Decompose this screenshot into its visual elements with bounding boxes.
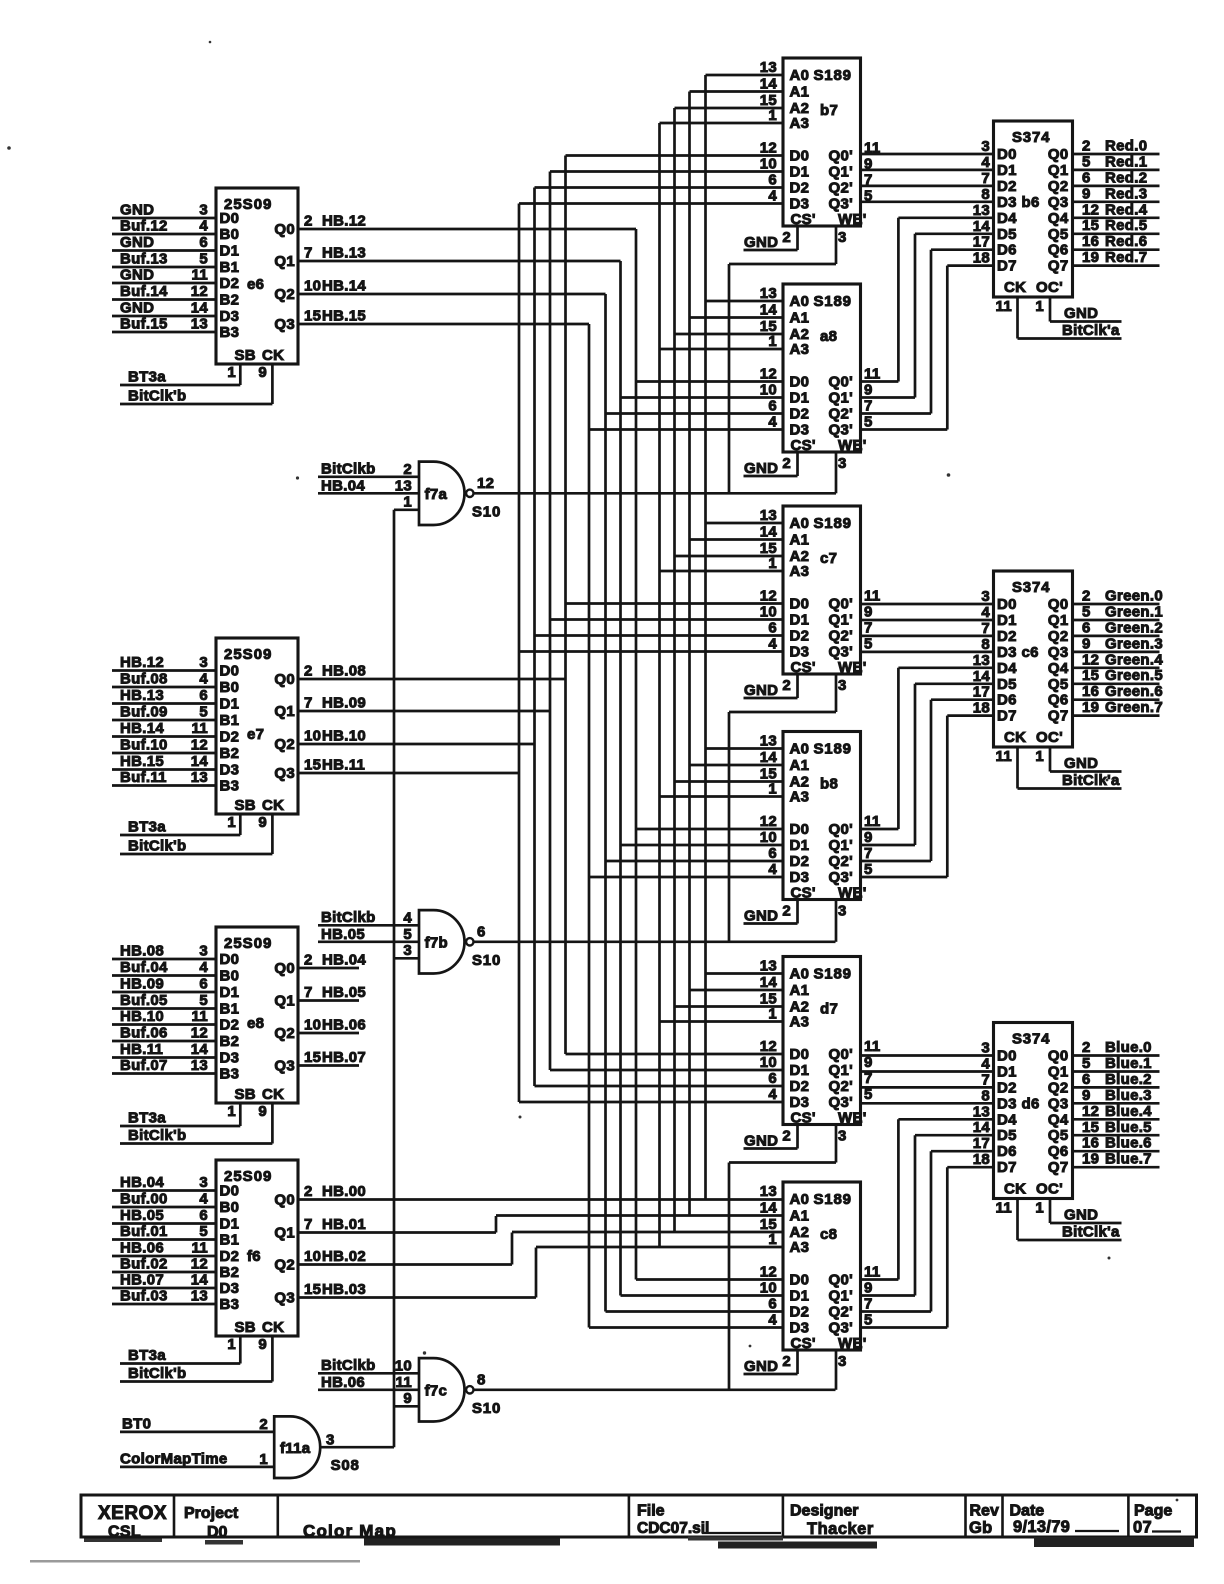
svg-text:2: 2: [1082, 588, 1091, 605]
svg-text:BitClk'b: BitClk'b: [128, 388, 186, 405]
svg-text:S08: S08: [331, 1457, 360, 1474]
svg-text:D3: D3: [790, 1320, 810, 1337]
svg-text:Q3: Q3: [274, 1058, 295, 1075]
svg-text:Q2': Q2': [829, 853, 853, 870]
svg-text:D3: D3: [220, 308, 240, 325]
svg-text:11: 11: [192, 720, 208, 737]
svg-text:A3: A3: [790, 115, 810, 132]
svg-text:9: 9: [258, 1103, 267, 1120]
svg-text:b8: b8: [820, 776, 838, 793]
svg-text:11: 11: [864, 588, 880, 605]
svg-text:3: 3: [838, 1128, 847, 1145]
svg-text:6: 6: [768, 1070, 777, 1087]
svg-text:D0: D0: [790, 821, 810, 838]
svg-text:Q2: Q2: [274, 736, 295, 753]
svg-text:14: 14: [973, 668, 991, 685]
svg-text:4: 4: [768, 1086, 777, 1103]
svg-text:HB.02: HB.02: [322, 1248, 366, 1265]
svg-text:f7a: f7a: [425, 486, 448, 503]
svg-text:2: 2: [782, 903, 791, 920]
svg-text:3: 3: [981, 138, 990, 155]
svg-text:14: 14: [760, 302, 778, 319]
svg-text:HB.15: HB.15: [120, 753, 164, 770]
svg-text:B2: B2: [220, 292, 240, 309]
svg-text:D6: D6: [997, 692, 1017, 709]
svg-text:2: 2: [782, 229, 791, 246]
svg-text:BitClk'b: BitClk'b: [128, 1127, 186, 1144]
svg-text:CK: CK: [262, 1319, 284, 1336]
svg-text:HB.04: HB.04: [321, 477, 365, 494]
svg-text:Q3: Q3: [1048, 1095, 1069, 1112]
svg-text:D1: D1: [790, 612, 810, 629]
svg-text:A1: A1: [790, 84, 810, 101]
svg-text:12: 12: [760, 1264, 777, 1281]
svg-text:1: 1: [1035, 748, 1044, 765]
svg-text:D0: D0: [997, 596, 1017, 613]
svg-text:10: 10: [760, 156, 777, 173]
svg-text:14: 14: [760, 749, 778, 766]
svg-text:CK: CK: [262, 1086, 284, 1103]
svg-text:14: 14: [760, 524, 778, 541]
svg-text:11: 11: [996, 298, 1012, 315]
svg-text:3: 3: [199, 202, 208, 219]
svg-text:Q7: Q7: [1048, 1159, 1069, 1176]
svg-text:Q7: Q7: [1048, 258, 1069, 275]
svg-text:9: 9: [864, 829, 873, 846]
svg-text:12: 12: [191, 1256, 208, 1273]
svg-text:1: 1: [768, 1006, 777, 1023]
svg-text:D2: D2: [220, 1017, 240, 1034]
svg-text:12: 12: [760, 813, 777, 830]
svg-text:12: 12: [191, 737, 208, 754]
svg-text:15: 15: [1082, 1119, 1099, 1136]
svg-text:11: 11: [864, 1038, 880, 1055]
svg-text:D3: D3: [997, 644, 1017, 661]
svg-text:Q5: Q5: [1048, 1127, 1069, 1144]
svg-text:18: 18: [973, 250, 990, 267]
svg-text:Red.6: Red.6: [1105, 233, 1147, 250]
svg-text:S189: S189: [814, 67, 852, 84]
svg-text:Q0: Q0: [274, 671, 295, 688]
svg-text:S189: S189: [814, 741, 852, 758]
svg-text:11: 11: [864, 366, 880, 383]
svg-text:GND: GND: [1064, 755, 1098, 772]
svg-text:Q2: Q2: [274, 1257, 295, 1274]
svg-text:14: 14: [973, 218, 991, 235]
svg-text:2: 2: [782, 1128, 791, 1145]
svg-text:Green.5: Green.5: [1105, 667, 1163, 684]
svg-text:9: 9: [258, 814, 267, 831]
svg-text:CK: CK: [1004, 1181, 1026, 1198]
svg-text:A0: A0: [790, 515, 810, 532]
svg-text:D0: D0: [997, 1048, 1017, 1065]
svg-text:Q1': Q1': [829, 390, 853, 407]
svg-text:Q2: Q2: [1048, 1079, 1069, 1096]
svg-text:D3: D3: [997, 1095, 1017, 1112]
svg-text:3: 3: [403, 942, 412, 959]
svg-text:4: 4: [199, 671, 208, 688]
svg-text:S189: S189: [814, 966, 852, 983]
svg-text:HB.04: HB.04: [322, 952, 366, 969]
svg-text:HB.10: HB.10: [322, 728, 366, 745]
svg-text:Blue.0: Blue.0: [1105, 1039, 1152, 1056]
svg-text:Q3: Q3: [274, 316, 295, 333]
svg-text:12: 12: [191, 283, 208, 300]
svg-text:Blue.5: Blue.5: [1105, 1119, 1152, 1136]
svg-text:4: 4: [403, 909, 412, 926]
svg-text:e7: e7: [247, 726, 264, 743]
svg-text:5: 5: [199, 1223, 208, 1240]
svg-text:Green.3: Green.3: [1105, 635, 1163, 652]
svg-text:Q2': Q2': [829, 406, 853, 423]
svg-text:Q2: Q2: [274, 286, 295, 303]
svg-text:HB.05: HB.05: [321, 926, 365, 943]
svg-text:D4: D4: [997, 210, 1017, 227]
svg-text:D3: D3: [790, 644, 810, 661]
svg-text:10: 10: [760, 382, 777, 399]
svg-text:WE': WE': [838, 1335, 867, 1352]
svg-text:Q1: Q1: [274, 253, 295, 270]
svg-text:6: 6: [199, 976, 208, 993]
svg-text:HB.10: HB.10: [120, 1008, 164, 1025]
svg-text:WE': WE': [838, 211, 867, 228]
svg-text:7: 7: [304, 984, 313, 1001]
svg-text:D0: D0: [790, 1046, 810, 1063]
svg-text:HB.05: HB.05: [322, 984, 366, 1001]
svg-text:A0: A0: [790, 1191, 810, 1208]
svg-text:3: 3: [199, 943, 208, 960]
svg-text:f6: f6: [247, 1248, 261, 1265]
svg-text:13: 13: [973, 1103, 990, 1120]
svg-text:SB: SB: [235, 797, 256, 814]
svg-text:B0: B0: [220, 679, 240, 696]
svg-text:Buf.12: Buf.12: [120, 218, 168, 235]
svg-text:d7: d7: [820, 1001, 838, 1018]
svg-text:Q2: Q2: [274, 1025, 295, 1042]
svg-text:9: 9: [1082, 1087, 1091, 1104]
svg-text:13: 13: [973, 202, 990, 219]
svg-text:Q0: Q0: [1048, 596, 1069, 613]
svg-text:BT3a: BT3a: [128, 1347, 166, 1364]
svg-text:13: 13: [191, 1288, 208, 1305]
svg-text:1: 1: [768, 555, 777, 572]
svg-text:S189: S189: [814, 1191, 852, 1208]
svg-text:10: 10: [304, 1017, 321, 1034]
svg-text:18: 18: [973, 1151, 990, 1168]
svg-text:CK: CK: [1004, 729, 1026, 746]
svg-text:Red.5: Red.5: [1105, 217, 1147, 234]
svg-text:1: 1: [768, 107, 777, 124]
svg-text:c7: c7: [820, 550, 837, 567]
svg-text:f7b: f7b: [425, 934, 448, 951]
svg-text:1: 1: [227, 364, 236, 381]
svg-text:14: 14: [191, 753, 209, 770]
svg-text:Green.4: Green.4: [1105, 651, 1163, 668]
svg-text:13: 13: [760, 958, 777, 975]
svg-text:7: 7: [981, 620, 990, 637]
svg-text:14: 14: [760, 974, 778, 991]
svg-text:12: 12: [477, 475, 494, 492]
svg-text:A3: A3: [790, 1014, 810, 1031]
svg-text:BitClk'a: BitClk'a: [1062, 322, 1120, 339]
svg-text:3: 3: [838, 455, 847, 472]
svg-text:11: 11: [864, 813, 880, 830]
svg-text:1: 1: [259, 1451, 268, 1468]
svg-text:D1: D1: [997, 612, 1017, 629]
svg-text:BT3a: BT3a: [128, 819, 166, 836]
svg-text:5: 5: [864, 414, 873, 431]
svg-text:1: 1: [768, 1231, 777, 1248]
svg-text:3: 3: [838, 1353, 847, 1370]
svg-text:5: 5: [1082, 604, 1091, 621]
svg-text:Blue.3: Blue.3: [1105, 1087, 1152, 1104]
svg-text:14: 14: [191, 1041, 209, 1058]
svg-text:Buf.01: Buf.01: [120, 1223, 168, 1240]
svg-text:Rev: Rev: [970, 1503, 999, 1520]
svg-text:D2: D2: [790, 628, 810, 645]
svg-text:WE': WE': [838, 659, 867, 676]
svg-text:Q0': Q0': [829, 596, 853, 613]
svg-text:D4: D4: [997, 660, 1017, 677]
svg-text:S374: S374: [1012, 129, 1050, 146]
svg-text:GND: GND: [744, 460, 778, 477]
svg-text:5: 5: [864, 1312, 873, 1329]
svg-text:CS': CS': [791, 1335, 816, 1352]
svg-text:Buf.03: Buf.03: [120, 1288, 168, 1305]
svg-text:4: 4: [981, 1056, 990, 1073]
svg-text:6: 6: [768, 398, 777, 415]
svg-text:4: 4: [768, 636, 777, 653]
svg-text:CK: CK: [1004, 279, 1026, 296]
svg-text:4: 4: [768, 188, 777, 205]
svg-text:Q2: Q2: [1048, 628, 1069, 645]
svg-text:CS': CS': [791, 885, 816, 902]
svg-text:6: 6: [1082, 1071, 1091, 1088]
svg-text:d6: d6: [1022, 1095, 1040, 1112]
svg-text:25S09: 25S09: [224, 935, 272, 952]
svg-text:GND: GND: [1064, 305, 1098, 322]
svg-text:10: 10: [760, 1054, 777, 1071]
svg-text:GND: GND: [744, 1358, 778, 1375]
svg-text:BitClk'b: BitClk'b: [128, 1365, 186, 1382]
svg-text:2: 2: [782, 677, 791, 694]
svg-text:XEROX: XEROX: [98, 1503, 167, 1524]
svg-text:D6: D6: [997, 1143, 1017, 1160]
svg-text:Red.0: Red.0: [1105, 138, 1147, 155]
svg-text:D2: D2: [790, 853, 810, 870]
svg-text:Q0: Q0: [1048, 1048, 1069, 1065]
svg-text:Q0': Q0': [829, 1046, 853, 1063]
svg-text:D7: D7: [997, 258, 1017, 275]
svg-text:1: 1: [403, 493, 412, 510]
svg-text:5: 5: [1082, 153, 1091, 170]
svg-text:D2: D2: [997, 1079, 1017, 1096]
svg-text:CK: CK: [262, 797, 284, 814]
svg-text:Q1': Q1': [829, 1062, 853, 1079]
svg-text:6: 6: [768, 172, 777, 189]
svg-text:4: 4: [981, 154, 990, 171]
svg-text:8: 8: [981, 186, 990, 203]
svg-text:6: 6: [768, 1296, 777, 1313]
svg-text:4: 4: [199, 1191, 208, 1208]
svg-text:9: 9: [258, 1336, 267, 1353]
svg-text:2: 2: [304, 213, 313, 230]
svg-text:15: 15: [304, 308, 321, 325]
svg-text:18: 18: [973, 700, 990, 717]
svg-text:GND: GND: [120, 267, 154, 284]
svg-text:ColorMapTime: ColorMapTime: [120, 1451, 228, 1468]
svg-text:Q1: Q1: [1048, 612, 1069, 629]
svg-text:D2: D2: [790, 1304, 810, 1321]
svg-text:9: 9: [258, 364, 267, 381]
svg-text:15: 15: [304, 1281, 321, 1298]
svg-text:D3: D3: [790, 196, 810, 213]
svg-text:4: 4: [981, 604, 990, 621]
svg-text:14: 14: [191, 1272, 209, 1289]
svg-text:D1: D1: [790, 1288, 810, 1305]
svg-text:11: 11: [396, 1374, 412, 1391]
svg-text:3: 3: [838, 229, 847, 246]
svg-text:Q3: Q3: [1048, 644, 1069, 661]
svg-text:11: 11: [864, 1264, 880, 1281]
svg-text:B0: B0: [220, 1199, 240, 1216]
svg-text:D2: D2: [220, 275, 240, 292]
svg-text:f11a: f11a: [280, 1440, 311, 1457]
svg-text:Buf.15: Buf.15: [120, 316, 168, 333]
svg-text:BitClkb: BitClkb: [321, 460, 376, 477]
svg-text:7: 7: [864, 1296, 873, 1313]
svg-text:Q1: Q1: [1048, 1064, 1069, 1081]
svg-text:4: 4: [768, 414, 777, 431]
svg-text:D0: D0: [220, 1183, 240, 1200]
svg-text:Q6: Q6: [1048, 1143, 1069, 1160]
svg-text:Blue.1: Blue.1: [1105, 1055, 1152, 1072]
svg-text:GND: GND: [744, 234, 778, 251]
svg-text:D0: D0: [790, 596, 810, 613]
svg-text:D0: D0: [790, 374, 810, 391]
svg-text:D5: D5: [997, 1127, 1017, 1144]
svg-text:1: 1: [768, 333, 777, 350]
svg-text:Q3': Q3': [829, 1320, 853, 1337]
svg-text:Q1': Q1': [829, 612, 853, 629]
svg-text:2: 2: [782, 1353, 791, 1370]
svg-text:D3: D3: [790, 869, 810, 886]
svg-text:A3: A3: [790, 1239, 810, 1256]
svg-text:D0: D0: [997, 146, 1017, 163]
svg-text:13: 13: [973, 652, 990, 669]
svg-text:19: 19: [1082, 699, 1099, 716]
svg-text:Q1': Q1': [829, 837, 853, 854]
svg-text:Thacker: Thacker: [807, 1520, 874, 1538]
svg-text:B1: B1: [220, 1232, 240, 1249]
svg-text:Blue.7: Blue.7: [1105, 1151, 1152, 1168]
svg-text:12: 12: [191, 1025, 208, 1042]
svg-text:5: 5: [1082, 1055, 1091, 1072]
svg-text:9: 9: [403, 1390, 412, 1407]
svg-text:9: 9: [1082, 185, 1091, 202]
svg-text:B1: B1: [220, 1001, 240, 1018]
svg-text:WE': WE': [838, 1110, 867, 1127]
svg-text:CK: CK: [262, 347, 284, 364]
svg-text:Q5: Q5: [1048, 226, 1069, 243]
svg-text:3: 3: [981, 588, 990, 605]
svg-text:14: 14: [760, 76, 778, 93]
svg-text:17: 17: [973, 684, 990, 701]
svg-text:Buf.04: Buf.04: [120, 959, 168, 976]
svg-text:D3: D3: [790, 422, 810, 439]
svg-text:D4: D4: [997, 1111, 1017, 1128]
svg-text:A0: A0: [790, 67, 810, 84]
svg-text:A3: A3: [790, 789, 810, 806]
svg-text:BitClkb: BitClkb: [321, 909, 376, 926]
svg-text:B0: B0: [220, 968, 240, 985]
svg-text:6: 6: [768, 845, 777, 862]
svg-text:HB.13: HB.13: [120, 687, 164, 704]
svg-text:B2: B2: [220, 745, 240, 762]
svg-text:Project: Project: [184, 1505, 239, 1522]
svg-text:9: 9: [864, 604, 873, 621]
svg-text:D0: D0: [790, 1272, 810, 1289]
svg-text:B0: B0: [220, 226, 240, 243]
svg-text:B2: B2: [220, 1033, 240, 1050]
svg-text:Q4: Q4: [1048, 660, 1069, 677]
svg-text:D0: D0: [220, 210, 240, 227]
svg-text:D2: D2: [790, 406, 810, 423]
svg-text:10: 10: [760, 829, 777, 846]
svg-text:b6: b6: [1022, 194, 1040, 211]
svg-text:Buf.11: Buf.11: [120, 769, 167, 786]
svg-text:HB.14: HB.14: [322, 278, 366, 295]
svg-text:Q1: Q1: [274, 993, 295, 1010]
svg-text:7: 7: [981, 1071, 990, 1088]
svg-text:A0: A0: [790, 966, 810, 983]
svg-text:Q0: Q0: [1048, 146, 1069, 163]
svg-text:b7: b7: [820, 102, 838, 119]
svg-text:CS': CS': [791, 1110, 816, 1127]
svg-text:S10: S10: [472, 1400, 501, 1417]
svg-text:13: 13: [191, 769, 208, 786]
svg-text:HB.15: HB.15: [322, 308, 366, 325]
svg-text:7: 7: [981, 170, 990, 187]
svg-text:B3: B3: [220, 1296, 240, 1313]
svg-text:8: 8: [981, 1087, 990, 1104]
svg-text:e6: e6: [247, 276, 264, 293]
svg-text:Q2': Q2': [829, 1304, 853, 1321]
svg-text:D3: D3: [790, 1094, 810, 1111]
svg-text:File: File: [637, 1503, 665, 1520]
svg-text:Q0: Q0: [274, 960, 295, 977]
svg-text:D1: D1: [220, 243, 240, 260]
svg-text:HB.07: HB.07: [120, 1272, 164, 1289]
svg-text:7: 7: [304, 1216, 313, 1233]
svg-text:6: 6: [199, 1207, 208, 1224]
svg-text:Blue.6: Blue.6: [1105, 1135, 1152, 1152]
svg-text:B1: B1: [220, 259, 240, 276]
svg-text:07: 07: [1133, 1519, 1152, 1537]
svg-text:13: 13: [760, 59, 777, 76]
svg-text:GND: GND: [1064, 1207, 1098, 1224]
svg-text:A1: A1: [790, 1208, 810, 1225]
svg-text:HB.04: HB.04: [120, 1174, 164, 1191]
svg-text:Date: Date: [1010, 1503, 1045, 1520]
svg-text:D1: D1: [790, 164, 810, 181]
svg-text:HB.11: HB.11: [120, 1041, 163, 1058]
svg-text:Q7: Q7: [1048, 708, 1069, 725]
svg-text:S189: S189: [814, 515, 852, 532]
svg-text:3: 3: [199, 654, 208, 671]
svg-text:e8: e8: [247, 1015, 264, 1032]
svg-text:B2: B2: [220, 1264, 240, 1281]
